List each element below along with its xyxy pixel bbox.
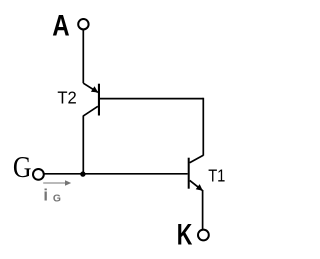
- svg-text:T1: T1: [208, 166, 225, 186]
- svg-text:K: K: [177, 219, 193, 252]
- terminal G circle: [33, 169, 44, 180]
- gate current arrow i_G: [43, 180, 71, 185]
- wire cathode lead: [202, 190, 204, 229]
- transistor T1 emitter arrowhead: [196, 184, 203, 191]
- junction node dot: [80, 171, 85, 176]
- svg-text:i: i: [43, 186, 48, 205]
- wire T2 collector down to gate node: [82, 116, 84, 174]
- transistor T1 collector slant wire: [190, 155, 204, 163]
- terminal A circle: [78, 19, 88, 29]
- wire right vertical down to T1 collector: [202, 98, 204, 156]
- svg-text:T2: T2: [57, 88, 76, 108]
- terminal K circle: [198, 230, 209, 241]
- wire anode lead: [82, 30, 84, 83]
- transistor T2 emitter slant wire: [83, 83, 98, 92]
- svg-text:G: G: [13, 150, 32, 184]
- svg-text:A: A: [52, 10, 69, 43]
- transistor T2 collector slant wire: [83, 106, 98, 116]
- wire gate horizontal: [44, 173, 188, 175]
- transistor T1 emitter slant wire: [190, 180, 203, 190]
- svg-text:G: G: [53, 192, 61, 204]
- transistor T2 base bar: [98, 84, 100, 116]
- wire T2 base to right: [100, 98, 204, 100]
- transistor T2 emitter arrowhead: [91, 86, 98, 92]
- transistor T1 base bar: [188, 158, 190, 189]
